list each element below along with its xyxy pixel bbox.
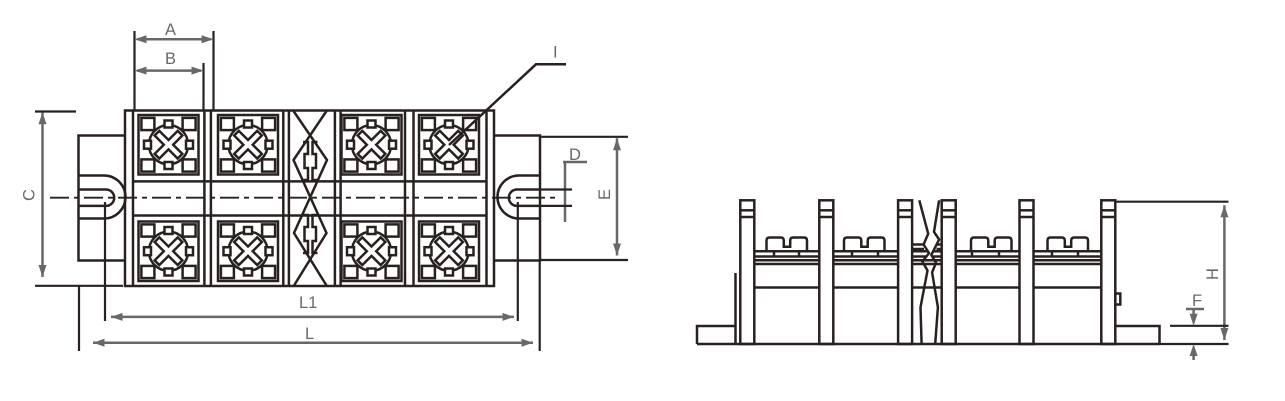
deck line 1 xyxy=(755,259,1102,262)
dimension labels xyxy=(21,21,1223,343)
terminal cell 4 bottom xyxy=(419,222,479,282)
svg-text:E: E xyxy=(596,189,614,200)
teeth bay3 xyxy=(971,238,1012,252)
divider 1 xyxy=(204,111,211,287)
latch xyxy=(1115,294,1120,305)
plate band bay3 xyxy=(955,251,1019,256)
terminal cell 3 top xyxy=(342,115,402,175)
dim F lower shaft xyxy=(1192,355,1195,360)
break zigzag left xyxy=(919,200,929,344)
wall 3 xyxy=(898,200,912,344)
wall 1 xyxy=(740,200,754,344)
left recess line xyxy=(734,273,737,344)
dim L arrowheads xyxy=(93,339,105,347)
cavity line lower xyxy=(133,214,487,217)
base bottom xyxy=(697,343,1160,346)
cavity line upper xyxy=(133,180,487,183)
right slot inner xyxy=(509,190,540,206)
dim A extension lines xyxy=(135,31,214,111)
svg-text:B: B xyxy=(165,50,176,68)
svg-text:L: L xyxy=(305,325,314,343)
terminal cell 4 top xyxy=(419,115,479,175)
right slot outer xyxy=(497,176,540,219)
dim B arrowheads xyxy=(135,67,147,75)
divider 4 xyxy=(405,111,414,287)
teeth bay1 xyxy=(767,238,808,252)
terminal cell 1 bottom xyxy=(139,222,199,282)
right foot xyxy=(1115,326,1159,344)
mid deck line xyxy=(755,286,1102,289)
deck line 2 xyxy=(755,263,1102,266)
dim D leader xyxy=(563,162,587,222)
svg-text:H: H xyxy=(1204,268,1222,280)
dim E extension lines xyxy=(540,137,628,260)
dim L line xyxy=(93,342,533,345)
divider 2 xyxy=(283,111,289,287)
dim D slot extension lines xyxy=(540,190,572,206)
wall 4 xyxy=(942,200,956,344)
break zigzag right xyxy=(931,200,939,344)
dim B line xyxy=(137,69,201,72)
dim L1 line xyxy=(111,316,514,319)
dim B extension line xyxy=(202,63,204,111)
break stubs xyxy=(912,245,942,257)
left foot xyxy=(697,326,736,344)
svg-text:I: I xyxy=(553,44,558,62)
body outer rect xyxy=(125,111,494,287)
svg-text:C: C xyxy=(21,189,39,201)
dim A line xyxy=(137,38,211,41)
dim H extension line xyxy=(1115,202,1228,344)
plate band bay4 xyxy=(1034,251,1102,256)
divider 3 xyxy=(335,111,341,287)
leader line I xyxy=(449,64,566,145)
body inner left line xyxy=(132,111,135,287)
dim E arrowheads xyxy=(613,138,621,150)
dim F arrowheads xyxy=(1190,314,1198,326)
terminal cell 3 bottom xyxy=(342,222,402,282)
arrowheads xyxy=(39,35,1229,356)
teeth bay2 xyxy=(844,238,885,252)
left mounting ear xyxy=(79,136,126,261)
plate band bay2 xyxy=(834,251,898,256)
dim L extension lines xyxy=(79,261,540,351)
body inner right line xyxy=(485,111,488,287)
dim F upper leader xyxy=(1186,308,1204,311)
dim C line xyxy=(41,113,44,278)
wall 2 xyxy=(819,200,833,344)
dim L1 extension lines xyxy=(105,202,518,321)
middle dovetail break pattern xyxy=(294,111,328,286)
dim E line xyxy=(616,138,619,255)
dim C arrowheads xyxy=(39,112,47,124)
left slot inner xyxy=(79,190,115,206)
terminal cell 1 top xyxy=(139,115,199,175)
svg-text:L1: L1 xyxy=(299,294,317,312)
svg-text:A: A xyxy=(165,21,176,39)
wall 6 xyxy=(1101,200,1115,344)
left slot outer xyxy=(79,176,126,219)
dim A arrowheads xyxy=(135,35,147,43)
svg-text:F: F xyxy=(1192,292,1202,310)
wall 5 xyxy=(1020,200,1034,344)
dim C extension lines xyxy=(35,112,123,286)
teeth bay4 xyxy=(1048,238,1089,252)
centerline xyxy=(50,197,556,199)
plate band bay1 xyxy=(755,251,820,256)
right mounting ear xyxy=(494,136,540,261)
dim H arrowheads xyxy=(1220,205,1228,217)
terminal cell 2 top xyxy=(218,115,278,175)
dim F extension line xyxy=(1170,325,1229,327)
dim L1 arrowheads xyxy=(111,313,123,321)
terminal cell 2 bottom xyxy=(218,222,278,282)
dim H line xyxy=(1223,205,1226,340)
svg-text:D: D xyxy=(569,146,581,164)
